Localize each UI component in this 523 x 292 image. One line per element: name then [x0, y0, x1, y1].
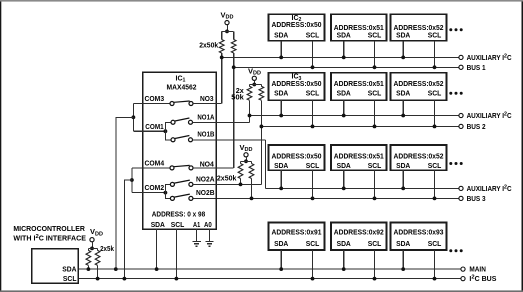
svg-text:COM2: COM2	[145, 185, 165, 192]
svg-text:IC1: IC1	[176, 76, 186, 84]
svg-text:SDA: SDA	[151, 222, 165, 229]
wire COM3 pin	[143, 103, 170, 105]
switch COM1-NO1A	[171, 118, 193, 124]
wire pullup4 left to SDA	[87, 265, 89, 269]
wire pullup2 legs	[250, 85, 262, 87]
svg-text:SDA: SDA	[274, 33, 288, 40]
node junction SCL row 3 col 3	[433, 197, 437, 201]
svg-text:ADDRESS:0x51: ADDRESS:0x51	[334, 154, 384, 161]
svg-text:SCL: SCL	[306, 163, 320, 170]
node COM4/COM2 tap	[130, 178, 134, 182]
label 2x bus2	[236, 88, 244, 95]
wire pullup4 legs	[88, 248, 97, 250]
wire SDA pin drop row 4 col 2	[343, 250, 345, 269]
svg-text:ADDRESS:0x50: ADDRESS:0x50	[272, 22, 322, 29]
svg-text:SDA: SDA	[274, 91, 288, 98]
node pullup1 right junction	[232, 65, 236, 69]
node BUS 1 SCL terminal	[459, 65, 463, 69]
wire NO4 riser up	[233, 67, 235, 168]
label MAIN	[469, 267, 486, 274]
node pullup2 left junction	[248, 114, 252, 118]
node pullup3 right junction	[250, 197, 254, 201]
wire pullup1 bar	[222, 30, 234, 32]
wire SDA tap to main	[116, 117, 134, 269]
node VDD bus2 junction	[252, 83, 256, 87]
label 2x50k bus3	[217, 176, 237, 183]
wire MAIN SCL bus	[78, 278, 460, 280]
node junction SCL row 2 col 1	[311, 125, 315, 129]
wire AUXILIARY I2C BUS 1 SDA line	[222, 56, 459, 58]
svg-text:A1: A1	[193, 222, 200, 229]
svg-text:SCL: SCL	[368, 163, 382, 170]
svg-text:NO2B: NO2B	[196, 190, 215, 197]
svg-text:COM4: COM4	[145, 160, 165, 167]
node junction SDA row 4 col 1	[279, 267, 283, 271]
node I2C BUS terminal	[461, 277, 465, 281]
node pullup4 left junction	[87, 267, 91, 271]
label pin SDA IC1	[151, 222, 165, 229]
wire COM1 branch down	[165, 131, 171, 140]
node junction SCL row 3 col 1	[311, 197, 315, 201]
wire pullup1 right to NO4 riser	[233, 53, 235, 67]
svg-text:SDA: SDA	[337, 241, 351, 248]
svg-text:SCL: SCL	[368, 33, 382, 40]
wire IC1 SCL drop	[175, 229, 177, 279]
I2C device box row 3 ADDRESS:0x52	[391, 145, 447, 170]
wire pullup3 legs	[241, 161, 252, 163]
ellipsis row 2	[449, 92, 462, 95]
svg-text:SDA: SDA	[337, 163, 351, 170]
switch COM3-NO3	[170, 101, 193, 106]
resistor 2x50k bus3 right	[249, 164, 254, 179]
wire SCL pin drop row 4 col 3	[434, 250, 436, 279]
wire SDA pin drop row 2 col 1	[280, 100, 282, 115]
label MICROCONTROLLER	[13, 226, 85, 233]
label COM3	[145, 96, 165, 103]
I2C device box row 1 ADDRESS:0x52	[391, 14, 447, 41]
node junction SCL row 3 col 2	[373, 197, 377, 201]
wire A0 drop	[209, 229, 211, 241]
svg-text:2x50k: 2x50k	[217, 176, 237, 183]
wire BUS 2 SCL line	[261, 125, 458, 127]
wire pullup2 bar	[250, 84, 262, 86]
svg-text:SCL: SCL	[428, 33, 442, 40]
wire pullup1 left leg	[221, 31, 223, 39]
I2C device box row 3 ADDRESS:0x51	[331, 145, 387, 170]
wire pullup4 right to SCL	[97, 265, 99, 278]
wire AUXILIARY I2C BUS 2 SDA line	[250, 115, 459, 117]
wire NO2A to riser	[193, 183, 261, 185]
wire A1 drop	[196, 229, 198, 241]
wire COM3 left loop	[133, 104, 142, 132]
label NO3	[200, 96, 214, 103]
label AUXILIARY I2C row 1	[467, 53, 512, 62]
wire COM1 pin	[143, 130, 166, 132]
label 50k bus2	[231, 95, 244, 102]
power VDD top	[221, 11, 234, 25]
node VDD micro junction	[90, 247, 94, 251]
svg-text:SDA: SDA	[274, 163, 288, 170]
node junction SCL row 4 col 2	[373, 277, 377, 281]
I2C device box row 1 ADDRESS:0x51	[331, 14, 387, 41]
svg-text:SCL: SCL	[368, 91, 382, 98]
svg-text:2x50k: 2x50k	[199, 43, 218, 50]
wire SDA pin drop row 3 col 2	[343, 170, 345, 188]
svg-text:NO1B: NO1B	[197, 132, 214, 139]
node AUX BUS 2 SDA terminal	[459, 113, 463, 117]
svg-text:NO2A: NO2A	[196, 177, 215, 184]
svg-text:MICROCONTROLLER: MICROCONTROLLER	[13, 226, 85, 233]
label WITH I2C INTERFACE	[13, 234, 86, 243]
svg-text:SCL: SCL	[428, 91, 442, 98]
wire COM1 entry	[133, 130, 142, 132]
svg-text:BUS 2: BUS 2	[467, 124, 486, 131]
svg-text:ADDRESS:0x92: ADDRESS:0x92	[334, 229, 384, 236]
wire COM1 branch up	[165, 122, 171, 131]
wire NO4 to riser	[193, 167, 234, 169]
node junction SCL row 1 col 3	[433, 65, 437, 69]
label pin A1	[193, 222, 200, 229]
label COM2	[145, 185, 165, 192]
wire COM2 entry	[132, 192, 143, 194]
wire VDD micro stem	[91, 242, 93, 248]
node junction SDA row 3 col 3	[401, 187, 405, 191]
svg-text:MAX4562: MAX4562	[167, 85, 197, 92]
node COM1 junction	[164, 129, 168, 133]
node BUS 2 SCL terminal	[459, 124, 463, 128]
node VDD top junction	[225, 30, 229, 34]
op IC1 MAX4562 box	[143, 72, 217, 229]
label NO4	[200, 161, 214, 168]
svg-text:SDA: SDA	[396, 163, 410, 170]
ellipsis row 4	[449, 249, 462, 252]
label 2x5k	[100, 246, 114, 253]
wire SCL tap to main	[124, 180, 131, 279]
ground A1	[192, 241, 200, 246]
resistor 2x50k bus2 right	[259, 86, 264, 100]
svg-text:SCL: SCL	[368, 241, 382, 248]
wire pullup3 right leg down	[251, 179, 253, 199]
wire pullup1 left to NO3	[221, 53, 223, 104]
wire SDA pin drop row 4 col 1	[280, 250, 282, 269]
ellipsis row 3	[449, 162, 462, 165]
svg-text:MAIN: MAIN	[469, 267, 486, 274]
wire NO1A riser up	[249, 116, 251, 123]
svg-text:WITH I2C INTERFACE: WITH I2C INTERFACE	[13, 234, 86, 243]
svg-text:ADDRESS:0x51: ADDRESS:0x51	[334, 25, 384, 32]
label AUXILIARY I2C row 3	[467, 184, 512, 193]
microcontroller box	[32, 249, 79, 284]
wire pullup2 right to NO2A	[260, 100, 262, 184]
node junction SDA row 4 col 2	[342, 267, 346, 271]
wire SCL pin drop row 4 col 2	[374, 250, 376, 279]
label COM4	[145, 160, 165, 167]
svg-text:SCL: SCL	[428, 241, 442, 248]
svg-text:ADDRESS: 0 x 98: ADDRESS: 0 x 98	[152, 211, 206, 218]
wire SCL pin drop row 2 col 3	[434, 100, 436, 126]
svg-text:COM1: COM1	[145, 124, 163, 131]
switch COM1-NO1B	[171, 136, 193, 142]
wire COM4 pin	[143, 167, 170, 169]
wire pullup2 left to NO1A	[249, 100, 251, 122]
wire SCL pin drop row 1 col 2	[374, 41, 376, 68]
wire AUXILIARY I2C BUS 3 SDA line	[266, 187, 459, 189]
node AUX BUS 3 SDA terminal	[459, 186, 463, 190]
svg-text:SCL: SCL	[306, 91, 320, 98]
resistor 2x50k bus2 left	[247, 86, 252, 100]
node VDD bus3 junction	[244, 159, 248, 163]
node junction SDA row 2 col 1	[279, 114, 283, 118]
svg-text:ADDRESS:0x50: ADDRESS:0x50	[272, 154, 322, 161]
label IC1	[176, 76, 186, 84]
wire pullup1 right leg	[233, 31, 235, 39]
I2C device box row 4 ADDRESS:0x93	[391, 223, 447, 251]
I2C device box row 1 ADDRESS:0x50	[269, 14, 325, 41]
node pullup1 left junction	[220, 56, 224, 60]
node MAIN terminal	[461, 267, 465, 271]
label BUS 1	[467, 65, 486, 72]
node SCL tap junction	[123, 277, 127, 281]
node junction SCL row 2 col 3	[433, 125, 437, 129]
wire SCL pin drop row 3 col 1	[312, 170, 314, 198]
node junction SDA row 4 col 3	[401, 267, 405, 271]
ground A0	[205, 241, 213, 246]
wire COM2 branch up	[165, 184, 170, 192]
svg-text:2x5k: 2x5k	[100, 246, 114, 253]
wire SDA pin drop row 2 col 3	[402, 100, 404, 115]
node COM3/COM1 tap	[132, 115, 136, 119]
wire MAIN SDA bus	[78, 268, 460, 270]
node pullup3 left junction	[239, 183, 243, 187]
I2C device box row 2 ADDRESS:0x50	[269, 73, 325, 100]
label NO1B	[197, 132, 214, 139]
resistor 2x5k right	[95, 250, 100, 265]
node IC1 SCL junction	[175, 277, 179, 281]
svg-text:SDA: SDA	[274, 241, 288, 248]
svg-text:COM3: COM3	[145, 96, 165, 103]
wire NO1B riser down	[265, 140, 267, 189]
svg-text:SCL: SCL	[171, 222, 185, 229]
svg-text:SDA: SDA	[337, 33, 351, 40]
svg-text:ADDRESS:0x52: ADDRESS:0x52	[394, 81, 444, 88]
node AUX BUS 1 SDA terminal	[459, 55, 463, 59]
label I2C BUS	[469, 275, 496, 284]
label pin SCL IC1	[171, 222, 185, 229]
resistor 2x5k left	[86, 250, 91, 265]
wire SDA pin drop row 2 col 2	[343, 100, 345, 115]
I2C device box row 2 ADDRESS:0x52	[391, 73, 447, 100]
svg-text:ADDRESS:0x91: ADDRESS:0x91	[272, 229, 322, 236]
svg-text:BUS 3: BUS 3	[467, 196, 486, 203]
node junction SDA row 1 col 2	[342, 56, 346, 60]
label MAX4562	[167, 85, 197, 92]
node junction SCL row 1 col 1	[311, 65, 315, 69]
label NO2A	[196, 177, 215, 184]
wire pullup3 bar	[241, 160, 252, 162]
label AUXILIARY I2C row 2	[467, 111, 512, 120]
label BUS 2	[467, 124, 486, 131]
label ADDRESS: 0 x 98	[152, 211, 206, 218]
node BUS 3 SCL terminal	[459, 196, 463, 200]
wire SCL pin drop row 2 col 1	[312, 100, 314, 126]
wire SDA pin drop row 1 col 3	[402, 41, 404, 58]
wire VDD bus2 stem	[253, 81, 255, 85]
node junction SCL row 4 col 1	[311, 277, 315, 281]
label micro SCL	[63, 276, 77, 283]
node junction SDA row 3 col 2	[342, 187, 346, 191]
node pullup4 right junction	[96, 277, 100, 281]
power VDD bus3	[240, 143, 253, 157]
svg-text:SDA: SDA	[62, 267, 76, 274]
resistor 2x50k top right	[231, 40, 236, 54]
switch COM2-NO2A	[170, 180, 193, 186]
wire SDA pin drop row 3 col 3	[402, 170, 404, 188]
wire SCL pin drop row 2 col 2	[374, 100, 376, 126]
wire SDA pin drop row 4 col 3	[402, 250, 404, 269]
wire BUS 3 SCL line	[193, 197, 459, 199]
svg-text:SCL: SCL	[63, 276, 77, 283]
I2C device box row 4 ADDRESS:0x91	[269, 223, 325, 251]
label BUS 3	[467, 196, 486, 203]
node IC1 SDA junction	[155, 267, 159, 271]
svg-text:SDA: SDA	[337, 91, 351, 98]
svg-text:SCL: SCL	[306, 33, 320, 40]
I2C device box row 2 ADDRESS:0x51	[331, 73, 387, 100]
power VDD micro	[90, 227, 103, 242]
wire VDD bus3 stem	[245, 157, 247, 161]
svg-text:SCL: SCL	[428, 163, 442, 170]
node pullup2 right junction	[260, 125, 264, 129]
label pin A0	[204, 222, 212, 229]
I2C device box row 3 ADDRESS:0x50	[269, 145, 325, 170]
svg-text:ADDRESS:0x93: ADDRESS:0x93	[394, 229, 444, 236]
svg-text:NO1A: NO1A	[197, 115, 214, 122]
power VDD bus2	[248, 66, 261, 80]
node junction SCL row 1 col 2	[373, 65, 377, 69]
svg-text:ADDRESS:0x51: ADDRESS:0x51	[334, 81, 384, 88]
resistor 2x50k top left	[219, 40, 224, 54]
wire pullup4 bar	[88, 247, 97, 249]
wire NO2B to bus3 scl	[192, 197, 194, 199]
wire COM2 pin	[143, 192, 166, 194]
svg-text:SDA: SDA	[396, 33, 410, 40]
label COM1	[145, 124, 163, 131]
svg-text:ADDRESS:0x52: ADDRESS:0x52	[394, 25, 444, 32]
svg-text:ADDRESS:0x52: ADDRESS:0x52	[394, 154, 444, 161]
wire BUS 1 SCL line	[234, 66, 459, 68]
label NO1A	[197, 115, 214, 122]
wire SDA pin drop row 1 col 1	[280, 41, 282, 58]
ellipsis row 1	[449, 28, 462, 31]
node junction SDA row 2 col 3	[401, 114, 405, 118]
svg-text:50k: 50k	[231, 95, 244, 102]
svg-text:NO4: NO4	[200, 161, 214, 168]
label 2x50k top	[199, 43, 218, 50]
wire NO3 to riser	[193, 103, 222, 105]
svg-text:BUS 1: BUS 1	[467, 65, 486, 72]
svg-text:A0: A0	[204, 222, 212, 229]
svg-text:NO3: NO3	[200, 96, 214, 103]
node junction SDA row 3 col 1	[279, 187, 283, 191]
wire IC1 SDA drop	[156, 229, 158, 269]
node junction SDA row 2 col 2	[342, 114, 346, 118]
wire NO1B to riser	[193, 139, 266, 141]
wire SDA pin drop row 3 col 1	[280, 170, 282, 188]
wire SCL pin drop row 3 col 2	[374, 170, 376, 198]
node junction SDA row 1 col 3	[401, 56, 405, 60]
wire COM4 left loop	[132, 168, 143, 193]
wire SCL pin drop row 1 col 3	[434, 41, 436, 68]
wire SCL pin drop row 3 col 3	[434, 170, 436, 198]
switch COM4-NO4	[170, 165, 193, 170]
resistor 2x50k bus3 left	[238, 164, 243, 179]
label NO2B	[196, 190, 215, 197]
node COM2 junction	[164, 191, 168, 195]
svg-text:SDA: SDA	[396, 91, 410, 98]
node SDA tap junction	[114, 267, 118, 271]
wire pullup3 left leg down	[240, 179, 242, 185]
wire SCL pin drop row 1 col 1	[312, 41, 314, 68]
svg-text:SCL: SCL	[306, 241, 320, 248]
wire SCL pin drop row 4 col 1	[312, 250, 314, 279]
I2C device box row 4 ADDRESS:0x92	[331, 223, 387, 251]
node junction SDA row 1 col 1	[279, 56, 283, 60]
wire NO1A to riser	[193, 121, 250, 123]
svg-text:ADDRESS:0x50: ADDRESS:0x50	[272, 81, 322, 88]
wire COM2 branch down	[165, 193, 170, 199]
node junction SCL row 2 col 2	[373, 125, 377, 129]
node junction SCL row 4 col 3	[433, 277, 437, 281]
label micro SDA	[62, 267, 76, 274]
svg-text:SDA: SDA	[396, 241, 410, 248]
wire VDD top stem	[226, 25, 228, 32]
wire SDA pin drop row 1 col 2	[343, 41, 345, 58]
switch COM2-NO2B	[170, 194, 193, 200]
